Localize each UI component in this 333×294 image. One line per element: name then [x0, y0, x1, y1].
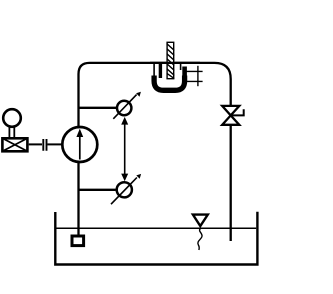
lower meter circle (variable) [117, 182, 132, 197]
shaft right segment [48, 143, 63, 145]
fluid level line [57, 227, 257, 229]
wire: pipe below valve into tank [230, 125, 232, 241]
guide ladder vertical [197, 66, 199, 86]
motor M1 body [2, 138, 27, 151]
motor cross diagonals [2, 138, 27, 151]
U-clamp thick bottom arc [154, 76, 185, 91]
valve V1 lower triangle [222, 115, 239, 124]
pump arrow [79, 136, 81, 160]
U-clamp thin left line [153, 64, 155, 78]
wire: pipe over support (redraw across bar) [150, 62, 200, 64]
pump P1 circle [62, 127, 97, 162]
double-headed arrow between meters [124, 121, 126, 177]
tank T1 [55, 212, 257, 265]
actuator stem [9, 127, 14, 139]
U-clamp thick left leg [159, 64, 162, 78]
strainer square [72, 236, 84, 246]
lower meter diagonal arrow [111, 178, 137, 205]
upper meter diagonal arrow [113, 95, 136, 119]
guide ladder rungs [186, 71, 203, 81]
coupling bars [43, 139, 46, 151]
valve handle [231, 109, 244, 116]
wire: branch to upper meter [79, 107, 117, 109]
level indicator triangle [193, 215, 208, 226]
wire: branch to lower meter [79, 189, 116, 191]
valve V1 upper triangle [222, 106, 239, 116]
U-clamp thick right leg [182, 67, 187, 79]
fixed support hatched bar [167, 42, 175, 78]
upper meter circle (variable) [117, 101, 131, 115]
motor actuator circle [3, 109, 21, 127]
wire: main discharge pipe with top run [79, 63, 231, 126]
shaft left segment [29, 143, 42, 145]
level squiggle [198, 229, 202, 250]
wire: suction pipe pump to strainer [77, 162, 79, 235]
U-clamp thin right line [180, 64, 182, 70]
